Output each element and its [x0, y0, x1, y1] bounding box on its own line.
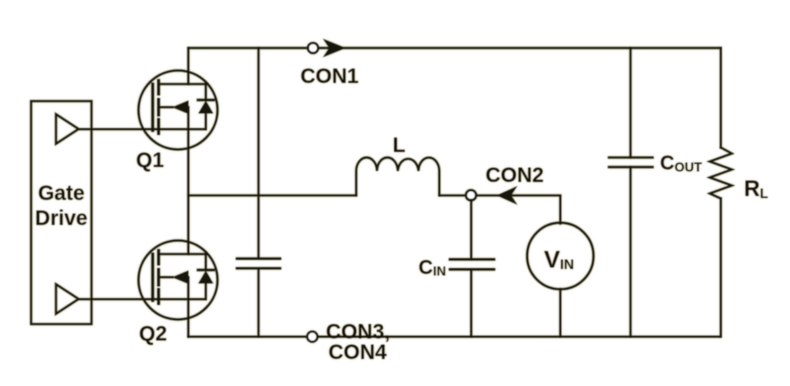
svg-text:CON2: CON2	[486, 164, 544, 187]
wire Q2 source	[187, 277, 189, 337]
wire Q2 gate	[79, 298, 206, 300]
svg-text:Q1: Q1	[136, 149, 164, 172]
label CON3	[326, 320, 390, 343]
svg-text:Gate: Gate	[38, 182, 85, 205]
svg-text:VIN: VIN	[544, 247, 574, 274]
svg-text:Q2: Q2	[139, 323, 167, 346]
wire Q1 drain	[187, 48, 189, 84]
capacitor COUT	[609, 48, 653, 337]
label VIN	[544, 247, 574, 274]
wire switch node	[188, 194, 356, 196]
label COUT	[660, 153, 702, 175]
node CON2	[466, 190, 476, 200]
resistor RL	[710, 148, 732, 199]
svg-text:CIN: CIN	[419, 257, 446, 279]
connector CON2 arrow	[497, 186, 518, 205]
wire Q1 gate	[79, 128, 206, 130]
transistor Q2	[139, 241, 218, 320]
svg-text:RL: RL	[744, 176, 768, 201]
wire bottom rail	[188, 336, 721, 338]
wire VIN bottom	[559, 289, 561, 337]
label L	[393, 134, 406, 157]
capacitor CIN	[450, 200, 494, 337]
svg-text:CON4: CON4	[328, 341, 387, 364]
connector CON3	[307, 332, 317, 342]
inductor L	[356, 158, 439, 196]
svg-text:Drive: Drive	[35, 207, 88, 230]
label Q2	[139, 323, 167, 346]
label RL	[744, 176, 768, 201]
svg-text:CON1: CON1	[300, 65, 359, 88]
wire right rail top	[720, 48, 722, 148]
wire L to VIN corner	[439, 195, 560, 223]
capacitor C1 bus	[237, 48, 280, 337]
label Q1	[136, 149, 164, 172]
transistor Q1	[139, 71, 218, 150]
svg-text:COUT: COUT	[660, 153, 702, 175]
label CON2	[486, 164, 544, 187]
gate drive box	[31, 101, 91, 324]
svg-text:L: L	[393, 134, 406, 157]
connector CON1	[308, 39, 346, 58]
label CON4	[328, 341, 387, 364]
buffer driver A2	[56, 284, 79, 314]
label CIN	[419, 257, 446, 279]
label CON1	[300, 65, 359, 88]
source VIN	[527, 223, 593, 289]
buffer driver A1	[56, 114, 79, 144]
wire top rail	[188, 47, 721, 49]
wire right rail bottom	[720, 199, 722, 337]
wire Q1 source to Q2 drain	[187, 107, 189, 254]
label Gate Drive	[35, 182, 88, 230]
